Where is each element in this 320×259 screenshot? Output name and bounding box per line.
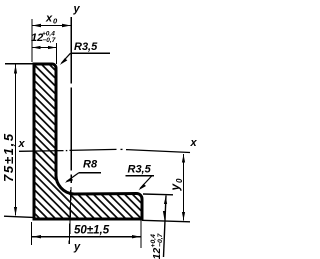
svg-text:75±1,5: 75±1,5 [1, 132, 16, 182]
profile outline (L angle section) [34, 64, 142, 219]
dimension 50 line with arrows [32, 235, 141, 238]
label 75±1,5 (rotated) [1, 132, 16, 182]
svg-text:R3,5: R3,5 [128, 164, 152, 176]
dimension 12 (top) line with arrows [32, 46, 57, 49]
svg-text:+0,4: +0,4 [150, 234, 157, 248]
label 12 +0,4 -0,7 (bottom, rotated) [150, 232, 164, 259]
leader R3,5 (top of vertical leg) [60, 53, 110, 65]
svg-text:x: x [190, 137, 198, 149]
label 12 +0,4 -0,7 (top) [31, 31, 56, 45]
dimension 50 left extension line [31, 222, 33, 245]
label y0 (rotated) [168, 178, 184, 192]
dimension 12 (top) right extension line [56, 43, 58, 64]
svg-text:12: 12 [151, 248, 163, 259]
svg-text:R8: R8 [83, 159, 98, 171]
svg-text:R3,5: R3,5 [74, 41, 98, 53]
dimension 75 extension line bottom-left [4, 216, 33, 217]
leader R8 (inner fillet) [65, 173, 101, 183]
leader R3,5 (end of horizontal leg) [126, 176, 155, 191]
svg-text:y: y [73, 3, 81, 15]
extension line bottom edge (right) [142, 220, 190, 222]
svg-text:y: y [73, 241, 81, 253]
y axis (vertical center line) [69, 17, 71, 244]
dimension y0 line with arrows [182, 154, 185, 221]
svg-text:0: 0 [53, 17, 58, 26]
dimension 12 (bottom right) line with arrows [163, 196, 167, 258]
extension line top edge of horizontal leg (right) [143, 193, 173, 196]
svg-text:x: x [45, 13, 53, 25]
x axis (horizontal center line) [19, 149, 190, 152]
svg-text:−0,7: −0,7 [157, 232, 164, 247]
dimension 75 extension line top-left [5, 63, 34, 65]
dimension 50 right extension line [140, 220, 142, 248]
dimension 75 line with arrows [14, 65, 17, 216]
dimension x0 line with arrows [32, 24, 71, 27]
dimension x0 extension line (left, top) [31, 19, 33, 62]
svg-text:x: x [18, 138, 26, 150]
svg-text:0: 0 [175, 178, 184, 183]
hatching [0, 50, 314, 259]
svg-text:50±1,5: 50±1,5 [74, 225, 110, 237]
svg-text:−0,7: −0,7 [43, 37, 56, 44]
